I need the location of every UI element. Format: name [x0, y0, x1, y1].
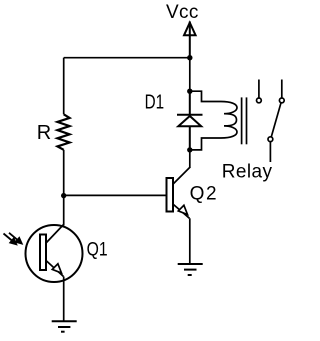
wire Vcc to diode node	[189, 58, 191, 91]
wire node to Q1	[63, 196, 65, 226]
light arrow 1	[4, 234, 17, 245]
svg-text:Relay: Relay	[222, 161, 273, 182]
switch common contact	[268, 137, 273, 162]
transistor Q2 collector	[173, 167, 190, 184]
transistor Q1 emitter arrow	[52, 264, 61, 273]
wire Q2 emitter to ground	[189, 218, 191, 264]
diode D1	[177, 91, 203, 150]
wire resistor to node	[63, 150, 65, 196]
svg-text:D1: D1	[145, 92, 165, 114]
transistor Q1 base bar	[40, 235, 46, 271]
switch left contact	[257, 80, 262, 103]
transistor Q2 base bar	[167, 178, 174, 212]
transistor Q1 emitter	[46, 261, 64, 277]
wire relay bottom lead	[190, 138, 221, 150]
wire diode node to Q2 collector	[189, 150, 191, 168]
node junction dot top	[187, 55, 192, 60]
light arrow 2	[9, 233, 22, 244]
relay core lines	[241, 97, 243, 144]
wire top horizontal	[64, 57, 190, 59]
wire left branch top	[63, 58, 65, 115]
wire relay top lead	[190, 91, 221, 101]
Vcc power symbol	[184, 22, 196, 58]
wire base horizontal	[64, 194, 167, 196]
svg-text:R: R	[37, 122, 51, 144]
svg-text:Q1: Q1	[87, 239, 108, 260]
wire Q1 emitter to ground	[63, 277, 65, 322]
transistor Q1 circle	[26, 225, 83, 282]
svg-text:Q2: Q2	[190, 183, 217, 204]
transistor Q1 collector	[46, 225, 64, 244]
transistor Q2 emitter	[173, 204, 190, 218]
relay coil K1	[221, 102, 237, 139]
svg-text:Vcc: Vcc	[166, 2, 199, 23]
node junction dot base	[61, 193, 66, 198]
node junction dot diode bottom	[187, 147, 192, 152]
transistor Q2 emitter arrow	[178, 205, 187, 214]
switch right contact	[279, 80, 284, 103]
resistor R	[57, 114, 69, 150]
ground Q2	[178, 264, 203, 275]
ground Q1	[52, 321, 77, 332]
node junction dot diode top	[187, 89, 192, 94]
switch blade	[271, 103, 281, 137]
